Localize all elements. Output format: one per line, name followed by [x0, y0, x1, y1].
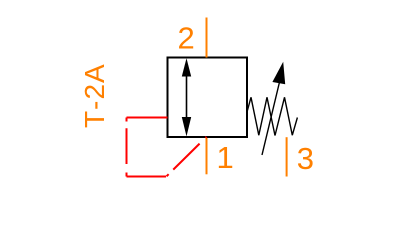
- valve body V1 (envelope square): [168, 58, 248, 138]
- svg-text:1: 1: [217, 140, 234, 175]
- port line 3 (drain, orange): [286, 137, 288, 176]
- svg-text:T-2A: T-2A: [79, 64, 110, 128]
- adjustment arrow across spring: [262, 62, 285, 155]
- svg-text:3: 3: [297, 141, 314, 176]
- flow path double arrow inside valve: [182, 58, 191, 136]
- port line 2 (top, orange): [206, 18, 208, 58]
- pilot line wire: diagonal dashed to port 1 junction: [167, 137, 207, 177]
- pilot line wire: bottom horizontal: [127, 176, 167, 178]
- spring (zigzag): [247, 97, 297, 135]
- svg-text:2: 2: [178, 20, 195, 55]
- pilot line wire: left vertical dashed: [126, 118, 128, 177]
- port line 1 (bottom, orange): [206, 138, 208, 174]
- pilot line wire: horizontal from valve left edge: [127, 117, 168, 119]
